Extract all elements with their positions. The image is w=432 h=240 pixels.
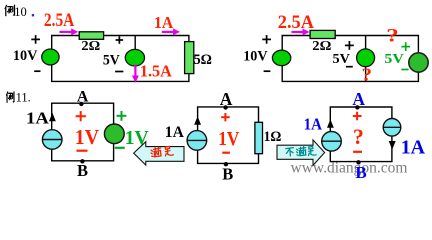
minus red (c5) bbox=[353, 151, 362, 153]
svg-text:?: ? bbox=[353, 124, 364, 149]
svg-text:5V: 5V bbox=[384, 52, 403, 67]
plus (c2 left) bbox=[262, 35, 271, 44]
svg-text:B: B bbox=[222, 164, 233, 182]
minus (c2 middle) bbox=[346, 66, 353, 68]
node A (c5) bbox=[355, 105, 359, 109]
minus green (c3) bbox=[115, 147, 125, 149]
svg-text:10V: 10V bbox=[243, 48, 268, 64]
svg-text:1.5A: 1.5A bbox=[140, 61, 173, 80]
big arrow right (bu man zu) bbox=[277, 140, 325, 166]
resistor R 1ohm (c4) bbox=[255, 122, 263, 153]
wire circuit5 loop bbox=[330, 107, 392, 162]
svg-text:B: B bbox=[355, 163, 366, 182]
plus red (c3) bbox=[76, 111, 86, 121]
minus (c1 left) bbox=[34, 70, 40, 72]
plus green (c3) bbox=[117, 111, 127, 121]
svg-text:1A: 1A bbox=[304, 115, 322, 134]
current arrow 1A (c1) bbox=[162, 28, 180, 35]
wire circuit3 loop bbox=[52, 103, 114, 161]
resistor R 2ohm (c1) bbox=[79, 32, 103, 40]
minus (c1 middle) bbox=[115, 71, 123, 73]
node B (c5) bbox=[356, 160, 360, 164]
node B (c4) bbox=[224, 162, 228, 166]
label 例10. bbox=[5, 5, 14, 15]
voltage source 10V (c1) bbox=[42, 49, 59, 65]
wire circuit2 middle branch bbox=[365, 36, 367, 82]
svg-text:2.5A: 2.5A bbox=[278, 12, 314, 33]
svg-text:2Ω: 2Ω bbox=[81, 38, 100, 53]
wire circuit1 middle branch bbox=[134, 36, 136, 82]
minus green (c2 right) bbox=[401, 69, 408, 71]
plus green (c2 right) bbox=[401, 42, 410, 51]
current arrow 1.5A (c1) bbox=[132, 65, 139, 83]
minus red (c3) bbox=[77, 150, 88, 152]
svg-text:A: A bbox=[77, 88, 89, 105]
minus red (c4) bbox=[222, 152, 230, 154]
svg-text:1A: 1A bbox=[165, 124, 184, 141]
plus red (c5) bbox=[353, 112, 362, 121]
svg-text:1A: 1A bbox=[401, 137, 426, 159]
voltage source 10V (c2) bbox=[272, 50, 290, 65]
node B (c3) bbox=[80, 159, 84, 163]
plus (c1 left) bbox=[31, 35, 40, 44]
plus (c2 middle) bbox=[345, 41, 354, 50]
svg-text:5Ω: 5Ω bbox=[194, 52, 212, 68]
plus (c1 middle) bbox=[116, 36, 124, 44]
svg-text:1V: 1V bbox=[75, 125, 99, 149]
resistor R 5ohm (c1) bbox=[185, 42, 194, 74]
label man zu (red script) bbox=[151, 146, 174, 158]
current source 1A (c5 right) bbox=[383, 119, 401, 150]
svg-text:10: 10 bbox=[14, 5, 26, 19]
label 例11. bbox=[6, 92, 14, 102]
wire circuit4 loop bbox=[198, 107, 259, 163]
current source 1A (c4) bbox=[187, 116, 207, 150]
node A (c3) bbox=[79, 102, 83, 106]
svg-text:?: ? bbox=[386, 25, 399, 46]
minus (c2 left) bbox=[264, 70, 271, 72]
current arrow 2.5A (c1) bbox=[60, 28, 79, 35]
svg-text:2.5A: 2.5A bbox=[44, 11, 75, 31]
svg-text:A: A bbox=[352, 89, 365, 109]
plus red (c4) bbox=[221, 113, 230, 121]
wire circuit1 outer loop bbox=[52, 36, 189, 82]
svg-text:B: B bbox=[77, 161, 88, 180]
svg-text:5V: 5V bbox=[333, 52, 350, 67]
current source 1A (c5 left) bbox=[321, 119, 341, 151]
resistor R 2ohm (c2) bbox=[310, 30, 335, 38]
current arrow 2.5A (c2) bbox=[292, 29, 310, 36]
voltage source 5V green (c2 right) bbox=[409, 53, 428, 72]
svg-text:11.: 11. bbox=[16, 91, 31, 105]
svg-text:?: ? bbox=[362, 65, 373, 85]
voltage source 1V green (c3) bbox=[104, 124, 124, 144]
svg-text:2Ω: 2Ω bbox=[312, 38, 331, 53]
svg-text:1V: 1V bbox=[218, 129, 239, 150]
svg-text:1Ω: 1Ω bbox=[264, 129, 282, 145]
svg-text:A: A bbox=[220, 89, 233, 109]
node A (c4) bbox=[223, 105, 227, 109]
voltage source 5V (c2 middle) bbox=[357, 49, 375, 67]
wire circuit2 outer loop bbox=[282, 36, 418, 82]
svg-text:10V: 10V bbox=[13, 48, 38, 64]
svg-text:1A: 1A bbox=[26, 109, 50, 128]
svg-text:1A: 1A bbox=[154, 13, 174, 32]
svg-text:5V: 5V bbox=[103, 52, 120, 68]
label bu man zu (teal script) bbox=[286, 146, 316, 157]
voltage source 5V (c1 middle) bbox=[125, 49, 144, 66]
current source 1A (c3) bbox=[42, 113, 62, 150]
big arrow left (man zu) bbox=[134, 142, 184, 165]
